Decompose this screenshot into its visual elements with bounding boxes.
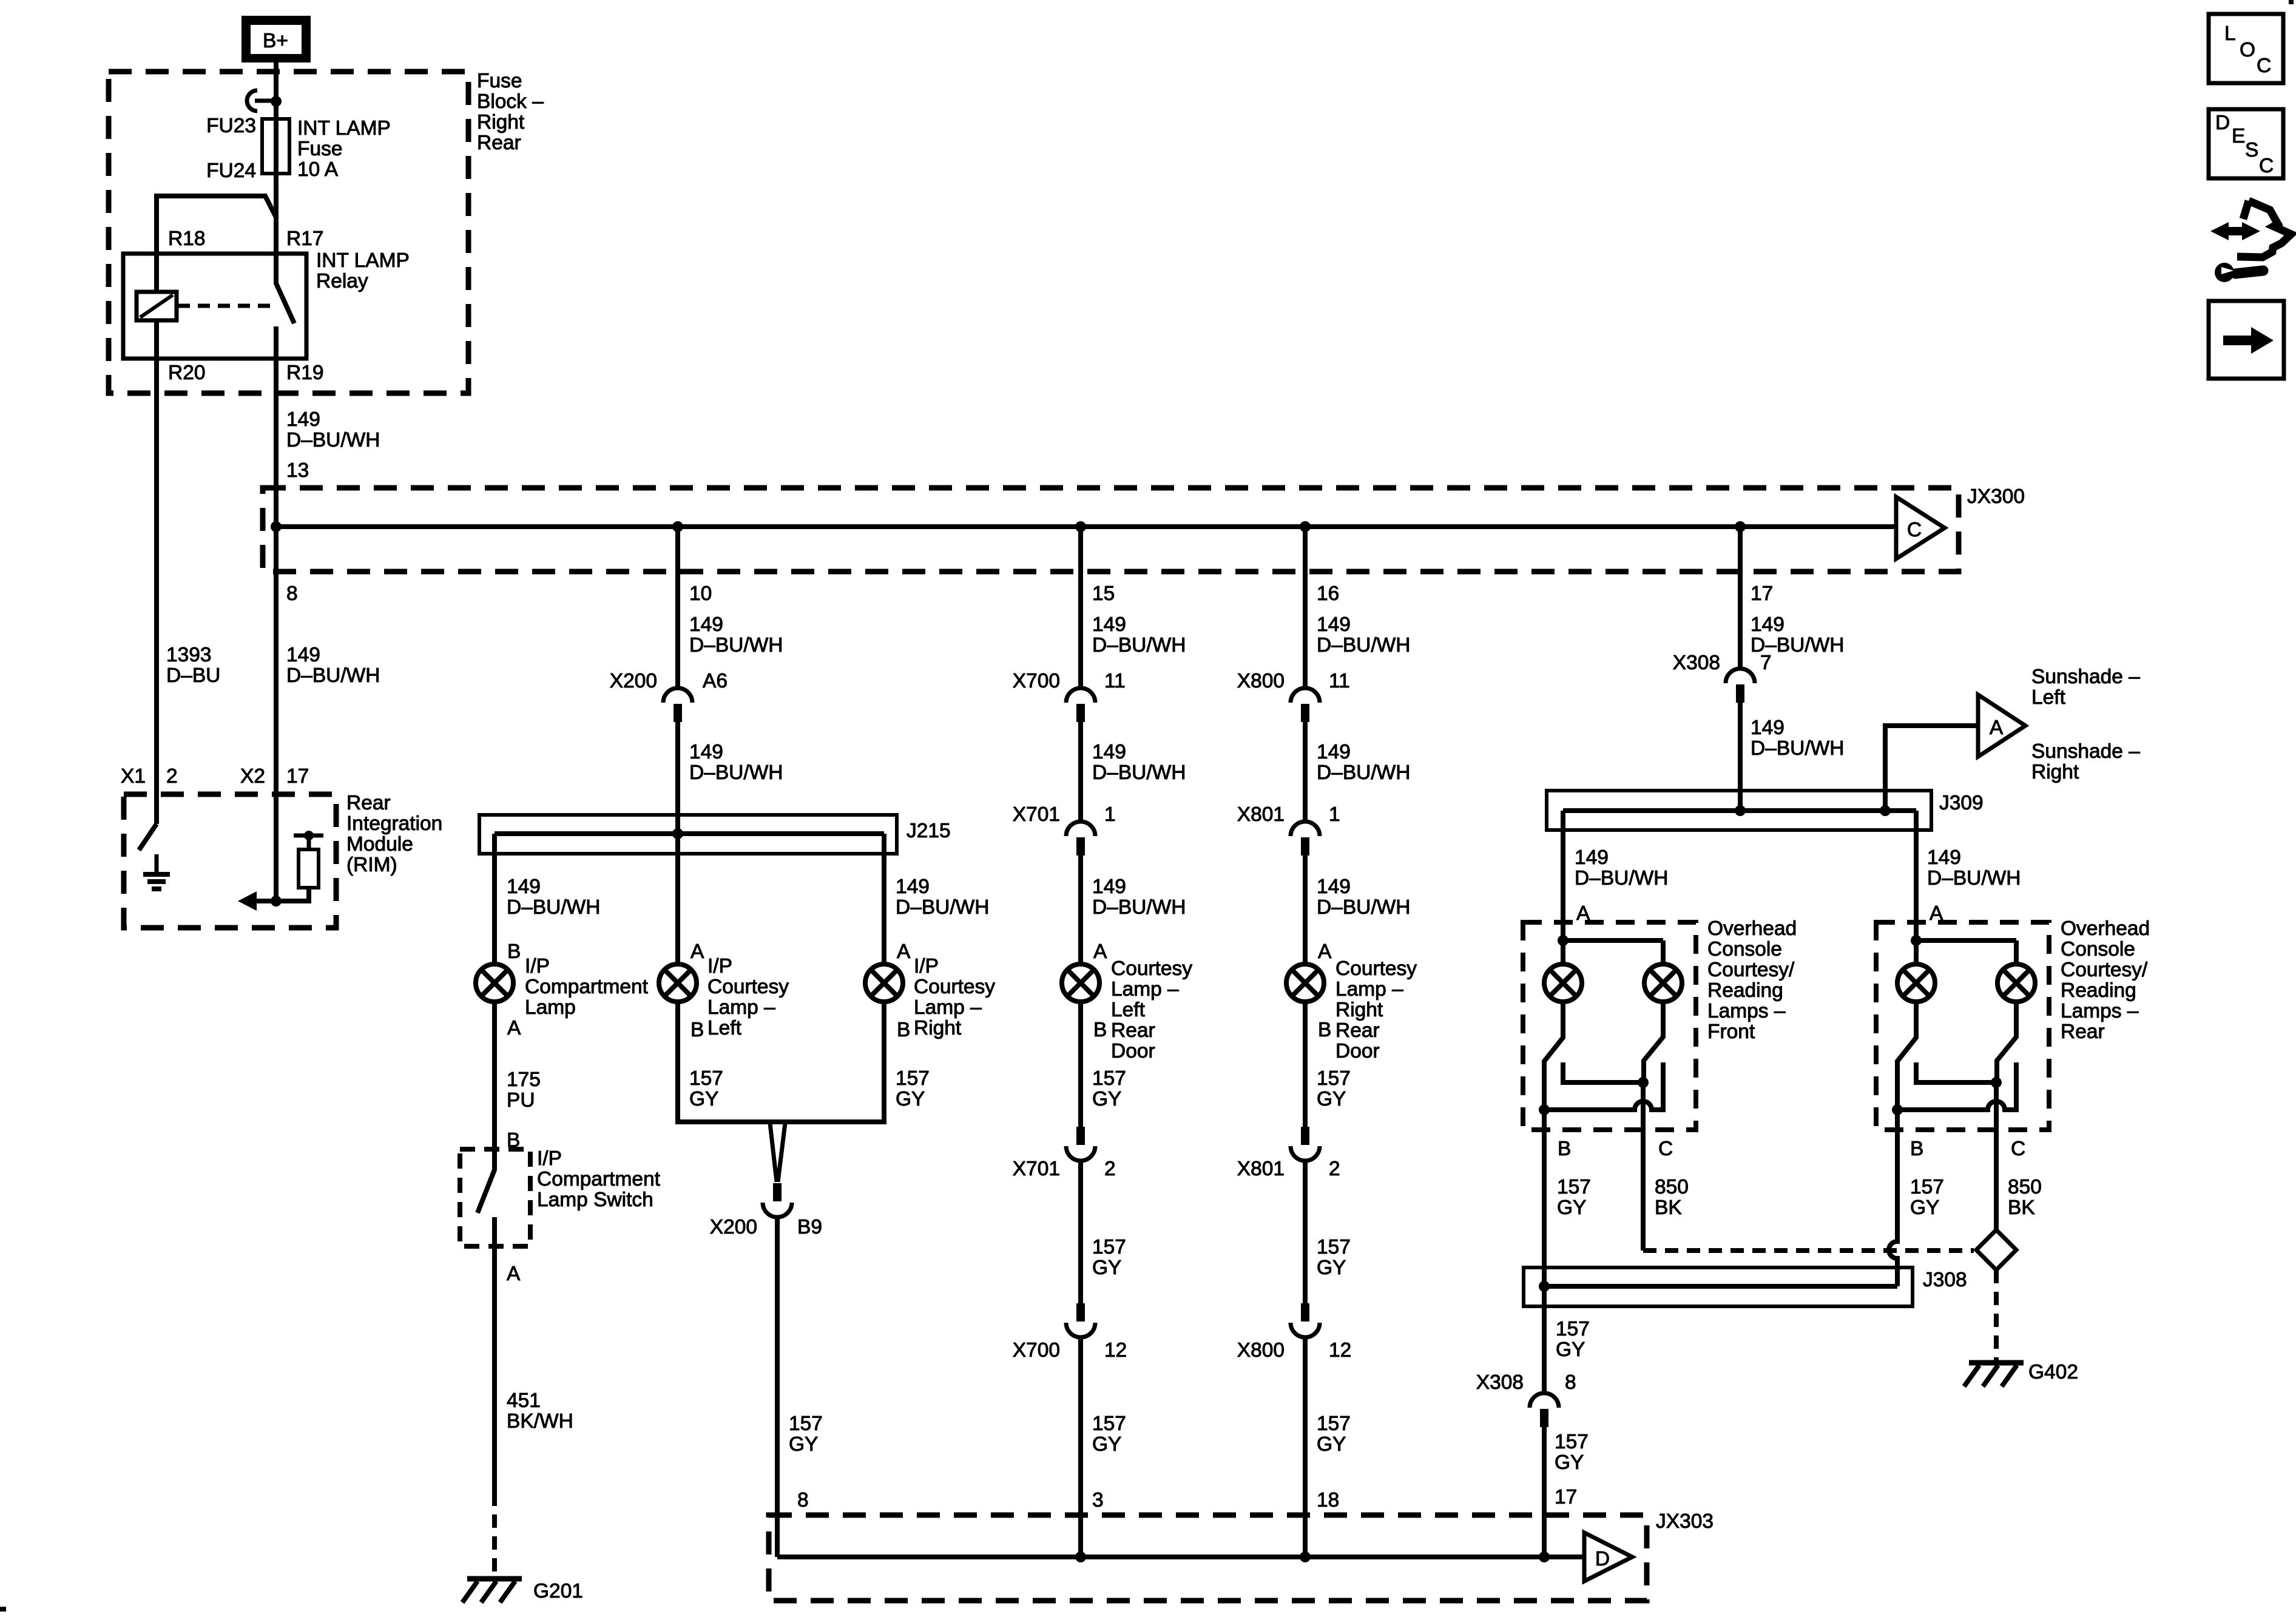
fuse FU23/FU24 INT LAMP Fuse 10 A <box>262 119 289 174</box>
connector arrow D off-page <box>1584 1533 1632 1581</box>
svg-text:X800: X800 <box>1237 670 1285 692</box>
lamp Courtesy Lamp - Right Rear Door <box>1286 964 1324 1002</box>
connector X701 pin 1 <box>1066 822 1095 856</box>
wire X700-11 to X701-1 <box>1078 722 1083 823</box>
icon diagnostic arrows and wrench <box>2210 201 2291 282</box>
svg-text:A: A <box>507 1017 521 1039</box>
svg-text:X308: X308 <box>1673 652 1720 674</box>
svg-text:8: 8 <box>286 582 298 605</box>
svg-text:A: A <box>690 940 704 963</box>
svg-text:B: B <box>1093 1019 1107 1041</box>
wire J309 to front console <box>1561 811 1565 940</box>
switch inside RIM <box>139 824 157 850</box>
wire X800-12 to JX303 pin 18 <box>1303 1336 1308 1557</box>
svg-text:157GY: 157GY <box>1092 1413 1126 1456</box>
wire rear B bar with hop <box>1897 1101 2016 1110</box>
svg-text:X701: X701 <box>1013 803 1060 826</box>
svg-text:17: 17 <box>1751 582 1773 605</box>
svg-text:157GY: 157GY <box>896 1067 930 1110</box>
wire 17 bus to X308-7 <box>1738 527 1743 670</box>
svg-text:R20: R20 <box>168 362 205 384</box>
module RIM dashed box <box>124 794 336 928</box>
wire internal RIM to resistor <box>255 888 309 901</box>
svg-text:157GY: 157GY <box>1317 1236 1351 1279</box>
svg-text:A: A <box>507 1263 521 1285</box>
contact front right <box>1661 1062 1666 1103</box>
wire X701-2 to X700-12 <box>1078 1160 1083 1303</box>
ground earth symbol inside RIM <box>143 854 170 889</box>
node rear console feed <box>1911 935 1922 946</box>
lamp rear console right <box>1997 964 2035 1002</box>
svg-text:157GY: 157GY <box>1556 1318 1590 1361</box>
node front console feed <box>1558 935 1568 946</box>
node diamond splice 850 BK <box>1976 1230 2016 1270</box>
wire 10 bus to X200-A6 <box>675 527 680 689</box>
relay switch contact <box>276 254 294 359</box>
wire X200-A6 to J215 <box>675 722 680 964</box>
svg-text:X801: X801 <box>1237 1158 1285 1180</box>
node bus-18 <box>1300 1551 1311 1562</box>
wire R18 feed from fuse output <box>157 196 277 254</box>
svg-text:C: C <box>2257 55 2271 77</box>
connector X801 pin 2 <box>1291 1127 1320 1161</box>
svg-text:O: O <box>2240 39 2255 61</box>
contact rear right <box>2014 1062 2019 1103</box>
svg-text:C: C <box>1658 1138 1673 1160</box>
wire merge bar <box>678 1119 884 1124</box>
svg-text:X700: X700 <box>1013 670 1060 692</box>
wire door lamp right to X801-2 <box>1303 1002 1308 1127</box>
svg-text:7: 7 <box>1760 652 1772 674</box>
lamp Courtesy Lamp - Left Rear Door <box>1062 964 1099 1002</box>
icon arrow box <box>2209 301 2284 379</box>
icon DESC box <box>2209 109 2283 178</box>
connector X700 pin 11 <box>1066 688 1095 722</box>
connector X700 pin 12 <box>1066 1303 1095 1337</box>
connector X308 pin 8 <box>1530 1393 1559 1427</box>
wire R19 to bus JX300 pin 13 <box>274 359 279 527</box>
connector X308 pin 7 <box>1726 669 1755 703</box>
svg-text:1: 1 <box>1329 803 1340 826</box>
resistor inside RIM <box>299 849 319 888</box>
svg-text:J308: J308 <box>1923 1269 1967 1291</box>
wire switch to G201 <box>492 1246 497 1493</box>
svg-text:B: B <box>507 940 521 963</box>
svg-text:B9: B9 <box>797 1216 822 1238</box>
relay linkage dashed <box>178 304 272 308</box>
svg-text:S: S <box>2245 139 2258 161</box>
switch rear right lamp <box>1997 1002 2016 1082</box>
wire X800-11 to X801-1 <box>1303 722 1308 823</box>
svg-text:A: A <box>1318 940 1332 963</box>
node bus-13 <box>271 521 282 532</box>
switch front right lamp <box>1644 1002 1663 1082</box>
node rear B junction <box>1892 1104 1903 1115</box>
svg-text:X308: X308 <box>1476 1371 1524 1394</box>
svg-text:157GY: 157GY <box>1910 1176 1944 1219</box>
svg-text:12: 12 <box>1329 1339 1351 1362</box>
node junction at fuse feed <box>271 96 282 107</box>
wire B9 to JX303 pin 8 <box>775 1216 780 1557</box>
node bus-3 <box>1075 1551 1086 1562</box>
svg-text:X800: X800 <box>1237 1339 1285 1362</box>
lamp rear console left <box>1897 964 1935 1002</box>
svg-text:17: 17 <box>286 765 309 788</box>
svg-text:X200: X200 <box>710 1216 757 1238</box>
svg-text:2: 2 <box>1104 1158 1116 1180</box>
wire X308-8 to JX303 pin 17 <box>1542 1427 1547 1557</box>
wire 15 bus to X700-11 <box>1078 527 1083 689</box>
svg-text:1: 1 <box>1104 803 1116 826</box>
svg-text:X701: X701 <box>1013 1158 1060 1180</box>
lamp front console right <box>1644 964 1682 1002</box>
svg-text:16: 16 <box>1317 582 1339 605</box>
svg-text:D: D <box>2215 112 2230 134</box>
module Overhead Console Courtesy/Reading Lamps - Rear dashed box <box>1876 922 2049 1130</box>
internal connection bar with node <box>294 836 323 849</box>
mark top-right dot <box>2289 0 2294 4</box>
svg-text:FU24: FU24 <box>206 160 256 182</box>
svg-text:JX300: JX300 <box>1967 485 2025 508</box>
icon LOC box <box>2209 14 2283 83</box>
ground G201 <box>462 1579 522 1602</box>
wire 16 bus to X800-11 <box>1303 527 1308 689</box>
node bus-17 <box>1735 521 1746 532</box>
node front B junction <box>1539 1104 1550 1115</box>
splice block J215 <box>479 815 897 854</box>
node bus-10 <box>672 521 683 532</box>
svg-text:A: A <box>1990 717 2004 739</box>
wire X801-1 to door lamp right <box>1303 856 1308 964</box>
node bus-17b <box>1539 1551 1550 1562</box>
lamp I/P Compartment Lamp <box>476 964 513 1002</box>
svg-text:11: 11 <box>1329 670 1350 692</box>
node bus-16 <box>1300 521 1311 532</box>
svg-text:X200: X200 <box>610 670 657 692</box>
splice block J309 <box>1547 791 1931 830</box>
wire 8 bus to RIM X2-17 <box>274 527 279 901</box>
switch rear left lamp <box>1897 1002 1916 1110</box>
svg-text:12: 12 <box>1104 1339 1127 1362</box>
wire J215 right branch <box>882 834 886 964</box>
svg-text:C: C <box>2011 1138 2025 1160</box>
svg-text:X700: X700 <box>1013 1339 1060 1362</box>
svg-text:157GY: 157GY <box>1317 1413 1351 1456</box>
lamp I/P Courtesy Lamp - Right <box>865 964 903 1002</box>
svg-text:B: B <box>897 1019 910 1041</box>
svg-text:L: L <box>2224 22 2236 45</box>
svg-text:X801: X801 <box>1237 803 1285 826</box>
relay coil wires <box>154 254 159 359</box>
connector X800 pin 12 <box>1291 1303 1320 1337</box>
svg-text:JX303: JX303 <box>1656 1510 1714 1533</box>
connector arrow A to sunshades <box>1978 695 2025 757</box>
wire front console top bar <box>1563 940 1663 964</box>
wire rear C to diamond <box>1994 1082 1999 1230</box>
connector X200 pin B9 <box>763 1183 792 1217</box>
wire sunshade feed <box>1885 726 1978 811</box>
battery feed B+ <box>241 16 311 62</box>
module Overhead Console Courtesy/Reading Lamps - Front dashed box <box>1523 922 1696 1130</box>
connector X200 pin A6 <box>663 688 692 722</box>
svg-text:13: 13 <box>286 459 309 482</box>
svg-text:FU23: FU23 <box>206 115 256 137</box>
node X2-17 internal junction <box>271 896 282 906</box>
arrow internal output RIM <box>238 891 257 911</box>
wire courtesy right down <box>882 1002 886 1124</box>
relay coil <box>137 292 177 320</box>
wire J308 to X308-8 <box>1542 1286 1547 1394</box>
connector X800 pin 11 <box>1291 688 1320 722</box>
svg-text:G402: G402 <box>2028 1361 2078 1383</box>
wire front B to J308 <box>1542 1110 1547 1286</box>
svg-text:157GY: 157GY <box>689 1067 723 1110</box>
switch I/P Compartment Lamp Switch dashed box <box>460 1149 530 1246</box>
svg-text:X1: X1 <box>121 765 146 788</box>
svg-text:G201: G201 <box>533 1580 583 1602</box>
svg-text:17: 17 <box>1555 1486 1577 1508</box>
wire bus JX303 <box>777 1555 1584 1559</box>
splice block J308 <box>1524 1268 1913 1306</box>
wire X308-7 to J309 <box>1738 703 1743 811</box>
wire X801-2 to X800-12 <box>1303 1160 1308 1303</box>
wire B+ to fuse FU23 <box>274 62 279 254</box>
junction bus JX300 dashed box <box>263 488 1959 572</box>
lamp front console left <box>1544 964 1582 1002</box>
svg-text:B: B <box>1558 1138 1571 1160</box>
svg-text:A: A <box>1093 940 1107 963</box>
connector X701 pin 2 <box>1066 1127 1095 1161</box>
svg-text:10: 10 <box>689 582 712 605</box>
wire R20 to RIM X1-2 <box>154 359 159 824</box>
svg-text:157GY: 157GY <box>1557 1176 1591 1219</box>
svg-text:A6: A6 <box>703 670 728 692</box>
node rear C junction <box>1991 1077 2002 1088</box>
svg-text:C: C <box>1907 519 1922 541</box>
svg-text:15: 15 <box>1092 582 1115 605</box>
wire J309 to rear console <box>1914 811 1919 940</box>
switch front left lamp <box>1544 1002 1563 1110</box>
mark bottom-left <box>0 1607 6 1612</box>
wire compartment lamp to switch <box>492 1002 497 1149</box>
svg-text:2: 2 <box>166 765 178 788</box>
svg-text:B: B <box>1910 1138 1923 1160</box>
svg-text:11: 11 <box>1104 670 1126 692</box>
wire front B bar with hop <box>1544 1101 1663 1110</box>
svg-text:B: B <box>690 1019 704 1041</box>
wire X700-12 to JX303 pin 3 <box>1078 1336 1083 1557</box>
svg-text:R19: R19 <box>286 362 323 384</box>
node bus-15 <box>1075 521 1086 532</box>
svg-text:J309: J309 <box>1939 792 1984 814</box>
connector X801 pin 1 <box>1291 822 1320 856</box>
junction bus JX303 dashed box <box>769 1515 1647 1601</box>
svg-text:B+: B+ <box>263 30 288 52</box>
wire X701-1 to door lamp left <box>1078 856 1083 964</box>
wire rear B to J308 with hop <box>1889 1110 1897 1286</box>
svg-text:X2: X2 <box>240 765 265 788</box>
wire courtesy left down <box>675 1002 680 1124</box>
wire dashed to G201 <box>492 1493 497 1578</box>
node front C junction <box>1638 1077 1649 1088</box>
svg-text:B: B <box>1318 1019 1331 1041</box>
relay INT LAMP Relay <box>123 254 306 359</box>
svg-text:157GY: 157GY <box>1092 1236 1126 1279</box>
wire J215 left branch <box>492 834 497 964</box>
terminal hook at fuse feed <box>247 90 272 111</box>
lamp I/P Courtesy Lamp - Left <box>659 964 697 1002</box>
svg-text:R18: R18 <box>168 228 205 250</box>
svg-text:18: 18 <box>1317 1489 1339 1511</box>
wire dashed diamond to G402 <box>1994 1270 1999 1361</box>
svg-text:8: 8 <box>797 1489 809 1511</box>
ground G402 <box>1964 1363 2024 1386</box>
svg-text:157GY: 157GY <box>1317 1067 1351 1110</box>
wire dashed 850 BK to diamond <box>1643 1248 1974 1253</box>
wire merge Y <box>770 1123 785 1182</box>
svg-text:2: 2 <box>1329 1158 1340 1180</box>
svg-text:8: 8 <box>1565 1371 1576 1394</box>
fuse block dashed box Fuse Block - Right Rear <box>109 72 468 393</box>
svg-text:C: C <box>2259 155 2274 177</box>
switch contact inside <box>478 1149 495 1246</box>
svg-text:D: D <box>1595 1548 1610 1570</box>
wire rear console top bar <box>1916 940 2016 964</box>
wire door lamp left to X701-2 <box>1078 1002 1083 1127</box>
svg-text:A: A <box>897 940 911 963</box>
svg-text:157GY: 157GY <box>1092 1067 1126 1110</box>
svg-text:3: 3 <box>1092 1489 1104 1511</box>
wire front C to ground line <box>1641 1082 1646 1251</box>
connector arrow C off-page <box>1896 497 1945 559</box>
contact rear left <box>1916 1062 1996 1082</box>
svg-text:J215: J215 <box>907 820 951 842</box>
svg-text:E: E <box>2232 125 2245 147</box>
svg-text:157GY: 157GY <box>789 1413 823 1456</box>
svg-text:R17: R17 <box>286 228 323 250</box>
wire bus JX300 <box>276 524 1896 529</box>
svg-text:157GY: 157GY <box>1555 1431 1589 1474</box>
contact front left <box>1563 1062 1643 1082</box>
